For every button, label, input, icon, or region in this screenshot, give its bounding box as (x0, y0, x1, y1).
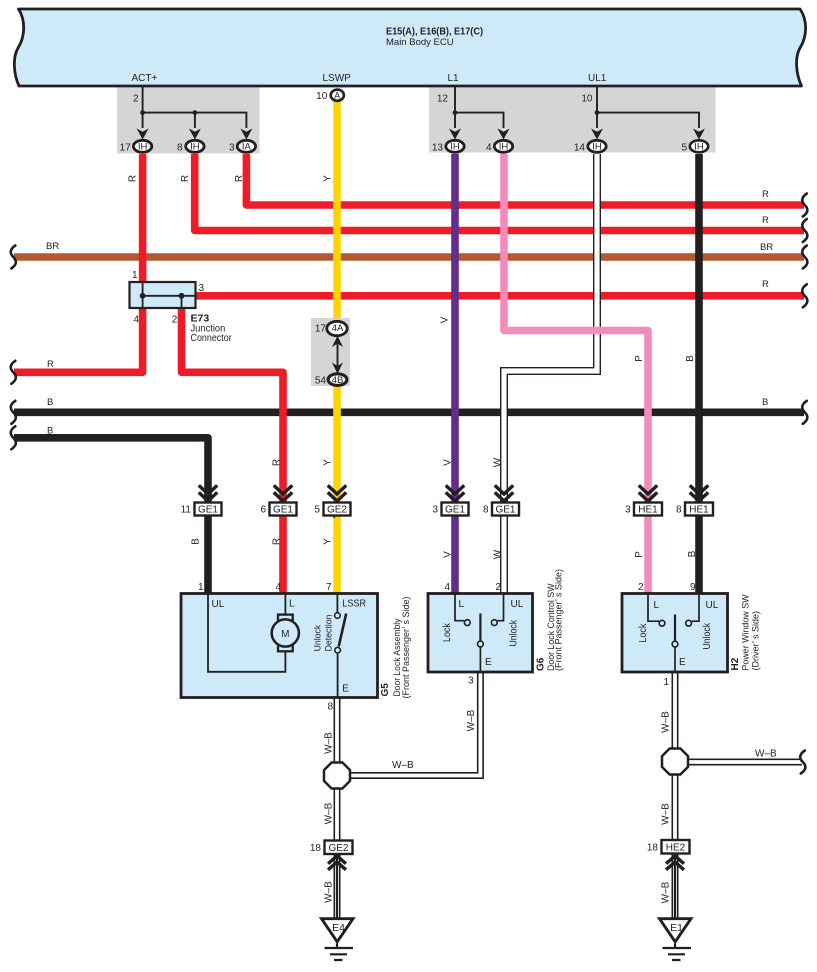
svg-text:UL: UL (706, 600, 719, 611)
svg-text:BR: BR (760, 242, 773, 253)
svg-text:GE1: GE1 (198, 505, 218, 516)
svg-text:5: 5 (314, 505, 320, 516)
svg-text:IH: IH (138, 142, 148, 153)
svg-text:R: R (234, 175, 245, 182)
svg-text:P: P (634, 551, 645, 558)
svg-text:W–B: W–B (466, 709, 477, 731)
svg-text:G5: G5 (380, 683, 391, 697)
svg-text:V: V (443, 551, 454, 558)
svg-text:W–B: W–B (324, 732, 335, 754)
svg-text:4A: 4A (332, 323, 344, 334)
svg-text:UL: UL (212, 599, 225, 610)
svg-text:(Driver’ s Side): (Driver’ s Side) (750, 611, 760, 671)
svg-text:R: R (272, 538, 283, 545)
svg-text:L: L (654, 600, 660, 611)
svg-text:W–B: W–B (661, 803, 672, 825)
svg-text:4: 4 (133, 315, 139, 326)
svg-text:HE1: HE1 (638, 505, 658, 516)
svg-text:B: B (191, 538, 202, 545)
svg-text:R: R (762, 215, 769, 226)
svg-text:Y: Y (323, 175, 334, 182)
svg-text:18: 18 (647, 843, 659, 854)
svg-text:Unlock: Unlock (313, 624, 323, 651)
svg-text:17: 17 (120, 142, 132, 153)
svg-text:E1: E1 (670, 922, 683, 934)
svg-text:E4: E4 (332, 922, 345, 934)
svg-text:GE1: GE1 (495, 505, 515, 516)
svg-text:ACT+: ACT+ (132, 73, 158, 84)
svg-text:L1: L1 (448, 73, 460, 84)
svg-text:W–B: W–B (661, 711, 672, 733)
svg-text:LSWP: LSWP (323, 73, 352, 84)
svg-text:Power Window SW: Power Window SW (740, 594, 750, 670)
svg-text:4: 4 (486, 142, 492, 153)
svg-text:HE2: HE2 (666, 843, 686, 854)
svg-text:IH: IH (190, 142, 200, 153)
svg-text:E15(A), E16(B), E17(C): E15(A), E16(B), E17(C) (386, 27, 483, 38)
svg-text:E: E (679, 657, 686, 668)
svg-text:IH: IH (450, 142, 460, 153)
svg-text:B: B (47, 426, 53, 437)
svg-text:W–B: W–B (661, 881, 672, 903)
svg-text:8: 8 (327, 702, 333, 713)
svg-text:UL1: UL1 (588, 73, 607, 84)
svg-text:Unlock: Unlock (509, 619, 520, 646)
svg-text:P: P (634, 355, 645, 362)
svg-text:GE1: GE1 (273, 505, 293, 516)
svg-text:R: R (127, 175, 138, 182)
svg-text:R: R (762, 189, 769, 200)
svg-text:8: 8 (177, 142, 183, 153)
svg-text:3: 3 (625, 505, 631, 516)
svg-text:4B: 4B (332, 375, 344, 386)
svg-text:12: 12 (437, 94, 449, 105)
svg-text:1: 1 (198, 582, 204, 593)
svg-text:GE2: GE2 (328, 843, 348, 854)
svg-text:(Front Passenger’ s Side): (Front Passenger’ s Side) (401, 597, 411, 699)
svg-text:W–B: W–B (755, 749, 777, 760)
svg-text:GE2: GE2 (327, 505, 347, 516)
svg-text:B: B (762, 397, 768, 408)
svg-text:M: M (281, 629, 289, 640)
svg-text:L: L (459, 599, 465, 610)
svg-text:UL: UL (511, 599, 524, 610)
svg-text:17: 17 (315, 324, 327, 335)
svg-text:A: A (334, 91, 340, 101)
svg-text:E: E (485, 657, 492, 668)
svg-text:9: 9 (690, 582, 696, 593)
svg-text:13: 13 (432, 142, 444, 153)
svg-text:B: B (685, 355, 696, 362)
svg-text:Lock: Lock (638, 623, 649, 643)
svg-text:Y: Y (323, 538, 334, 545)
svg-text:W–B: W–B (324, 881, 335, 903)
svg-text:R: R (272, 459, 283, 466)
svg-text:1: 1 (132, 270, 138, 281)
svg-text:HE1: HE1 (689, 505, 709, 516)
svg-text:6: 6 (260, 505, 266, 516)
svg-text:IH: IH (592, 142, 602, 153)
svg-text:3: 3 (229, 142, 235, 153)
svg-text:2: 2 (133, 94, 139, 105)
svg-text:IH: IH (499, 142, 509, 153)
svg-text:BR: BR (46, 241, 59, 252)
svg-text:1: 1 (663, 677, 669, 688)
svg-text:2: 2 (172, 315, 178, 326)
svg-text:E: E (342, 684, 349, 695)
svg-text:G6: G6 (536, 657, 547, 671)
svg-text:2: 2 (638, 582, 644, 593)
svg-text:3: 3 (468, 676, 474, 687)
svg-text:Lock: Lock (442, 622, 453, 642)
svg-text:18: 18 (310, 843, 322, 854)
svg-text:10: 10 (316, 91, 328, 102)
svg-text:3: 3 (199, 283, 205, 294)
svg-text:Main Body ECU: Main Body ECU (386, 37, 454, 48)
svg-text:B: B (47, 397, 53, 408)
svg-text:IA: IA (242, 142, 252, 153)
svg-text:3: 3 (432, 505, 438, 516)
svg-text:14: 14 (574, 142, 586, 153)
svg-text:54: 54 (315, 375, 327, 386)
svg-text:V: V (443, 459, 454, 466)
svg-text:4: 4 (444, 582, 450, 593)
svg-text:Unlock: Unlock (702, 622, 713, 649)
svg-text:5: 5 (681, 142, 687, 153)
svg-text:4: 4 (275, 582, 281, 593)
svg-text:W–B: W–B (324, 802, 335, 824)
svg-text:IH: IH (694, 142, 704, 153)
svg-text:R: R (762, 279, 769, 290)
svg-text:8: 8 (676, 505, 682, 516)
svg-text:LSSR: LSSR (342, 599, 366, 610)
svg-text:W: W (493, 457, 504, 467)
svg-text:W: W (493, 549, 504, 559)
svg-text:Y: Y (323, 459, 334, 466)
svg-text:W–B: W–B (392, 760, 414, 771)
svg-text:7: 7 (326, 582, 332, 593)
svg-text:R: R (180, 175, 191, 182)
svg-text:(Front Passenger’ s Side): (Front Passenger’ s Side) (553, 569, 563, 671)
svg-text:11: 11 (181, 505, 192, 516)
svg-text:8: 8 (483, 505, 489, 516)
svg-text:Connector: Connector (191, 333, 233, 344)
svg-text:B: B (687, 550, 698, 557)
svg-text:L: L (289, 599, 295, 610)
svg-text:GE1: GE1 (445, 505, 465, 516)
svg-text:V: V (440, 316, 451, 323)
svg-text:10: 10 (581, 94, 593, 105)
svg-text:Detection: Detection (324, 615, 334, 652)
svg-text:2: 2 (495, 582, 501, 593)
svg-text:R: R (47, 359, 54, 370)
